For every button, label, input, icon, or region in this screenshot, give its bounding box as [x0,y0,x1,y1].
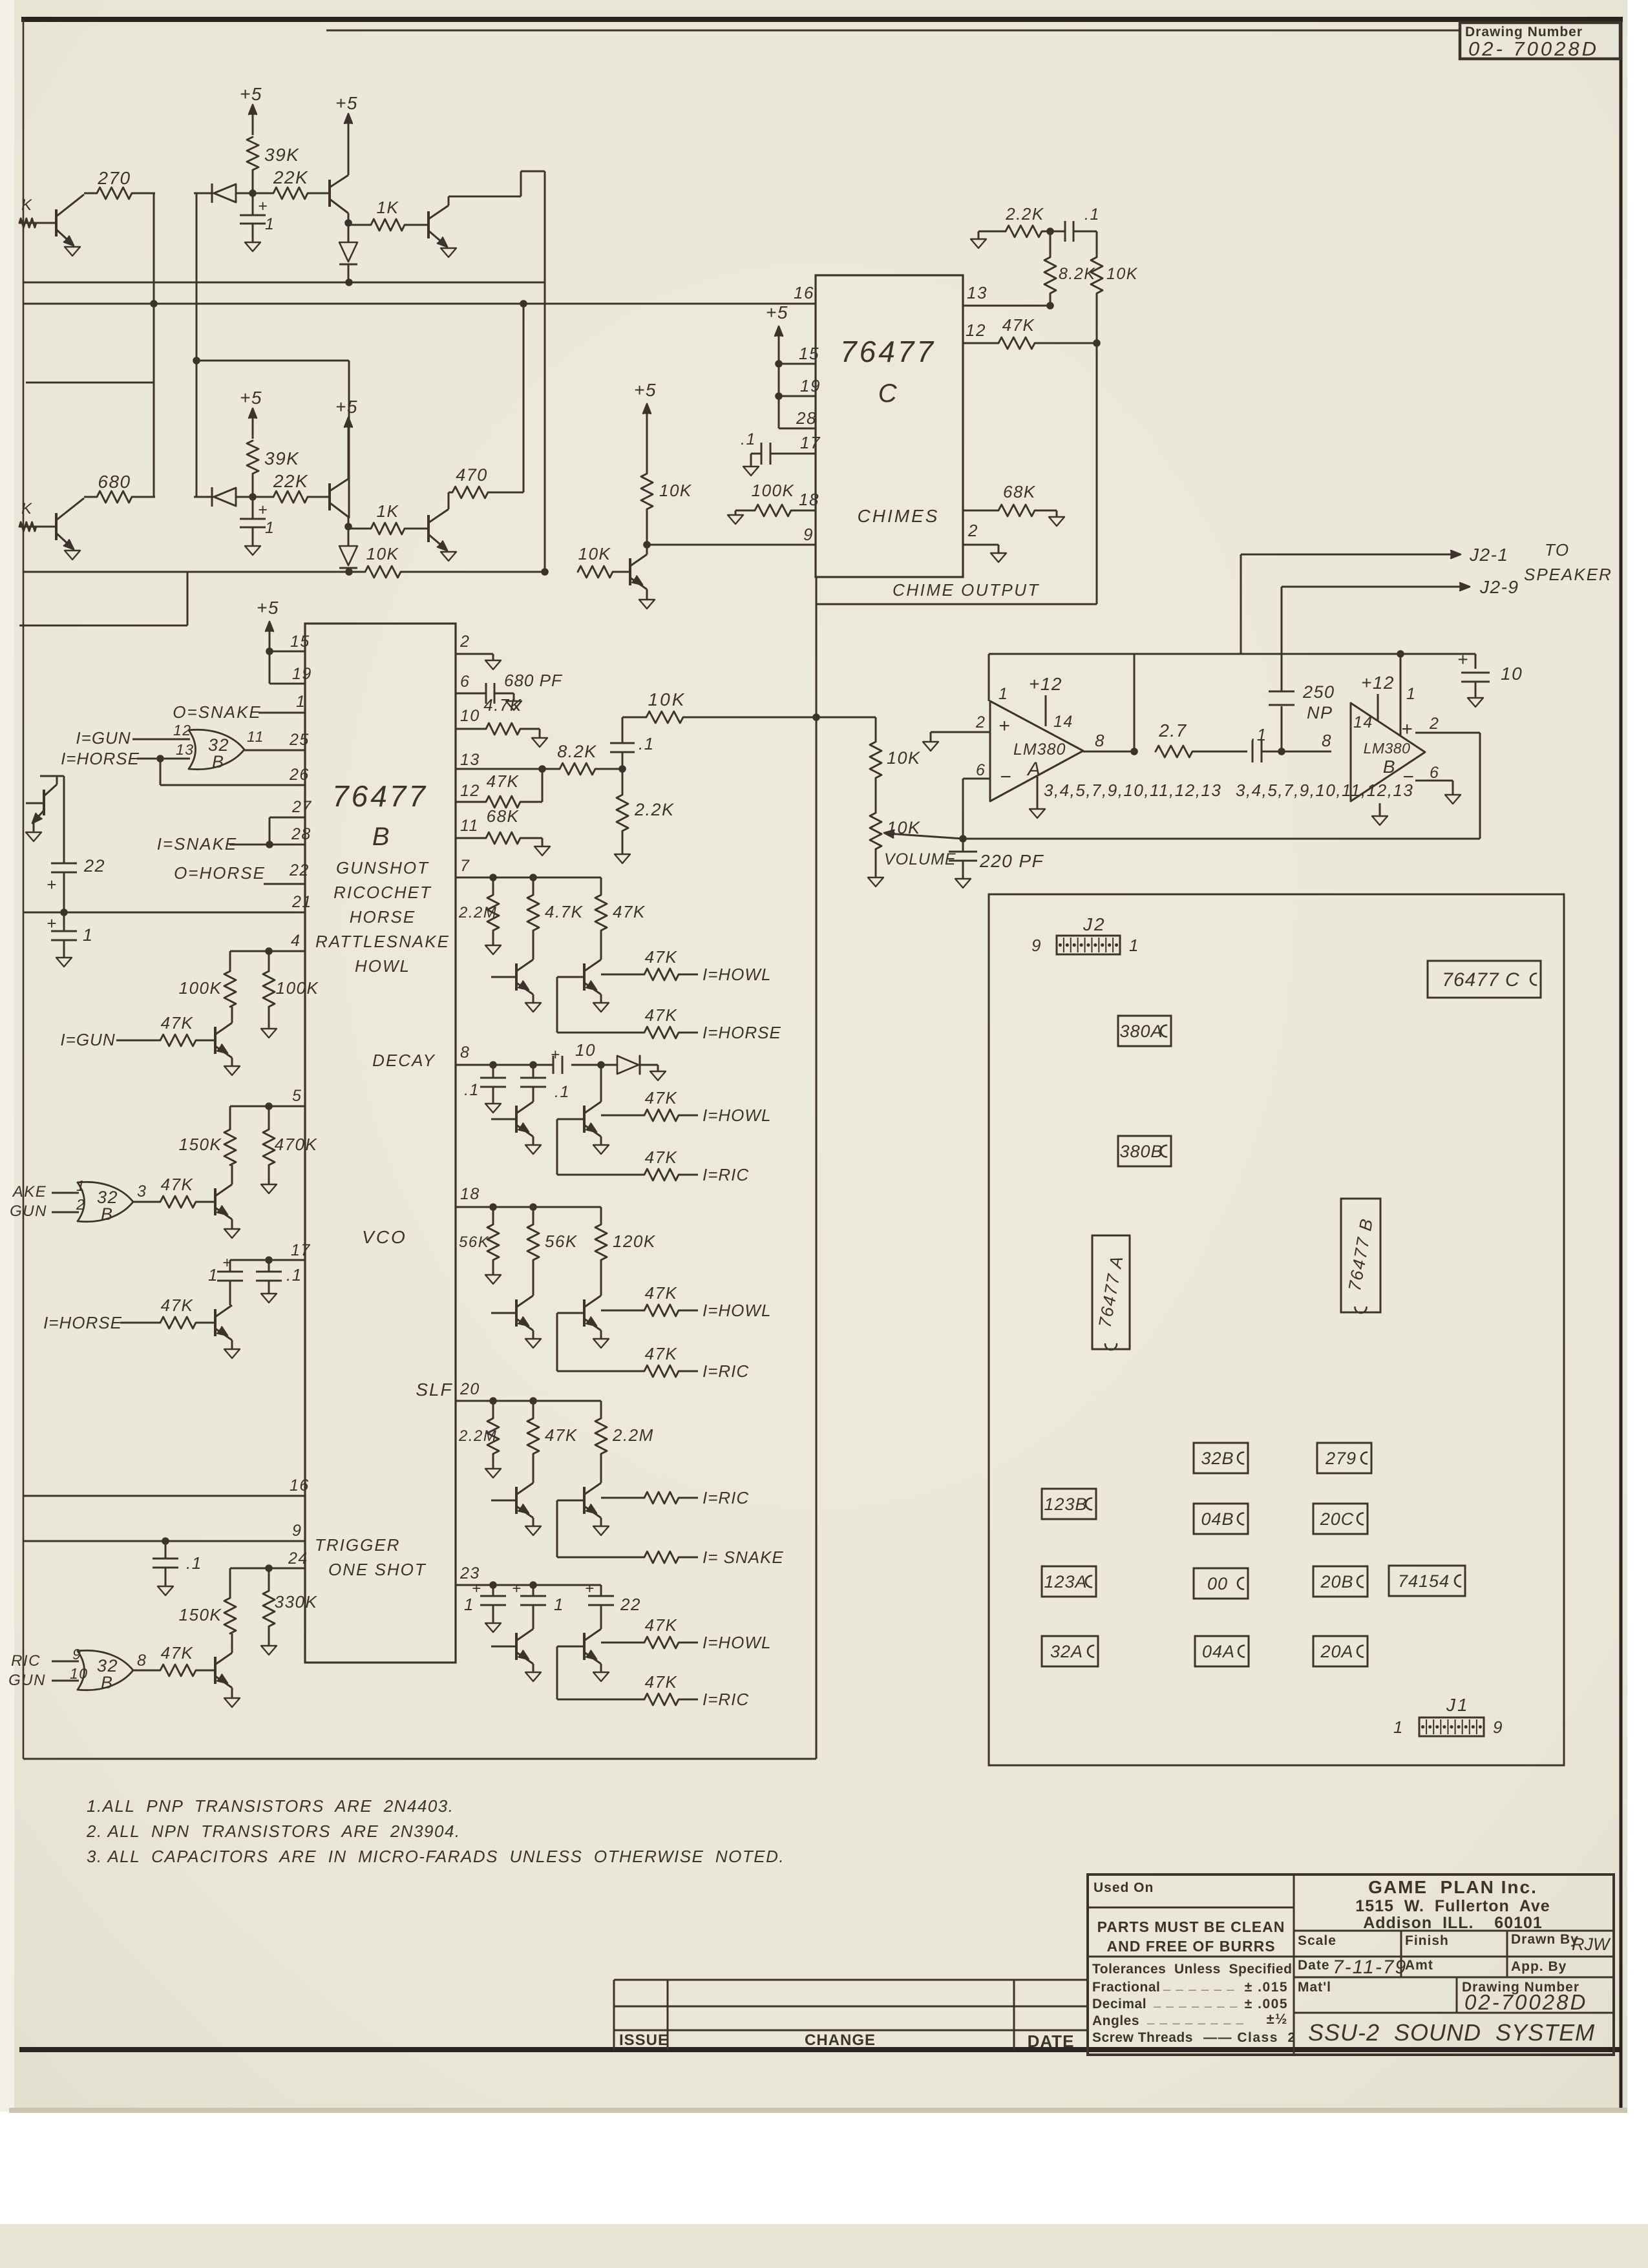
svg-text:2.2M: 2.2M [458,1427,497,1445]
svg-text:B: B [101,1673,114,1692]
svg-text:Decimal: Decimal [1092,1997,1146,2011]
svg-text:15: 15 [290,633,310,651]
svg-text:2: 2 [460,633,470,651]
svg-text:I=RIC: I=RIC [703,1690,749,1709]
svg-text:6: 6 [1430,764,1439,782]
svg-text:28: 28 [796,408,817,428]
svg-text:+12: +12 [1029,674,1062,694]
svg-text:J2-1: J2-1 [1469,545,1508,565]
svg-text:10: 10 [460,707,480,725]
svg-text:8: 8 [1322,731,1332,750]
svg-text:6: 6 [976,761,986,779]
svg-text:10: 10 [70,1665,89,1682]
svg-text:123A: 123A [1044,1572,1087,1591]
svg-text:3,4,5,7,9,10,11,12,13: 3,4,5,7,9,10,11,12,13 [1236,781,1413,800]
svg-text:.1: .1 [286,1265,302,1285]
svg-text:2. ALL NPN TRANSISTORS ARE: 2. ALL NPN TRANSISTORS ARE 2N3904. [86,1822,461,1841]
svg-text:2.2K: 2.2K [1005,204,1044,224]
svg-text:.1: .1 [464,1081,480,1099]
svg-text:GUN: GUN [10,1202,47,1220]
svg-text:1: 1 [998,685,1008,703]
svg-text:+5: +5 [240,388,262,408]
svg-text:04B: 04B [1201,1509,1234,1529]
svg-text:± .005: ± .005 [1245,1997,1288,2011]
svg-text:12: 12 [460,782,480,800]
svg-text:I=HORSE: I=HORSE [61,749,140,768]
svg-text:8.2K: 8.2K [1059,265,1095,283]
svg-text:B: B [1383,757,1396,777]
svg-text:+: + [1401,719,1413,740]
svg-text:8: 8 [1095,731,1105,750]
svg-text:HORSE: HORSE [350,907,416,927]
svg-text:CHIMES: CHIMES [858,506,940,526]
svg-text:10K: 10K [578,544,611,563]
svg-text:47K: 47K [645,1088,678,1108]
svg-text:20: 20 [460,1380,480,1398]
svg-text:100K: 100K [752,481,795,500]
svg-text:_ _ _ _ _ _ _ _: _ _ _ _ _ _ _ _ [1146,2011,1244,2026]
svg-text:220 PF: 220 PF [979,851,1044,871]
svg-text:470: 470 [456,465,488,485]
svg-text:DECAY: DECAY [372,1051,436,1070]
svg-text:+5: +5 [766,302,788,322]
svg-text:PARTS MUST BE CLEAN: PARTS MUST BE CLEAN [1097,1918,1285,1935]
svg-text:56K: 56K [459,1234,489,1251]
svg-text:14: 14 [1353,713,1373,731]
svg-text:2.7: 2.7 [1158,720,1187,740]
svg-text:32B: 32B [1201,1449,1234,1468]
svg-text:± .015: ± .015 [1245,1980,1288,1995]
svg-text:App. By: App. By [1511,1959,1567,1974]
svg-text:−: − [1000,766,1012,788]
svg-text:B: B [212,752,225,772]
svg-text:150K: 150K [179,1135,222,1154]
svg-text:_ _ _ _ _ _: _ _ _ _ _ _ [1163,1978,1235,1992]
svg-text:AND FREE OF BURRS: AND FREE OF BURRS [1106,1938,1275,1955]
svg-text:25: 25 [289,731,310,749]
svg-text:.1: .1 [1084,205,1100,224]
svg-text:3,4,5,7,9,10,11,12,13: 3,4,5,7,9,10,11,12,13 [1044,781,1221,800]
svg-text:02-70028D: 02-70028D [1464,1990,1587,2014]
svg-text:1: 1 [296,693,306,711]
svg-text:K: K [21,196,33,214]
svg-text:470K: 470K [275,1135,318,1154]
svg-text:47K: 47K [545,1425,578,1445]
svg-text:10: 10 [1501,664,1523,684]
svg-text:279: 279 [1325,1449,1357,1468]
svg-text:—— Class 2: —— Class 2 [1203,2030,1296,2045]
svg-text:GUN: GUN [8,1672,46,1689]
svg-text:1: 1 [76,1177,85,1194]
svg-text:120K: 120K [613,1232,656,1251]
svg-text:+: + [551,1046,561,1064]
svg-text:SPEAKER: SPEAKER [1524,565,1612,584]
svg-text:I=GUN: I=GUN [60,1030,115,1049]
svg-text:Used On: Used On [1093,1880,1154,1895]
svg-text:AKE: AKE [12,1183,47,1201]
svg-text:22K: 22K [273,167,308,187]
svg-text:12: 12 [173,722,192,739]
svg-text:1: 1 [464,1595,474,1614]
svg-text:.1: .1 [186,1553,202,1573]
svg-text:22K: 22K [273,471,308,491]
svg-text:76477: 76477 [840,335,936,368]
svg-text:6: 6 [460,673,470,691]
svg-text:47K: 47K [645,1005,678,1025]
svg-text:26: 26 [289,766,310,784]
svg-text:J2: J2 [1083,914,1106,934]
svg-text:1515 W. Fullerton Ave: 1515 W. Fullerton Ave [1355,1897,1550,1915]
svg-text:2.2M: 2.2M [612,1425,654,1445]
svg-text:RICOCHET: RICOCHET [333,883,432,902]
svg-text:O=SNAKE: O=SNAKE [173,702,262,722]
svg-text:00: 00 [1207,1574,1228,1593]
svg-text:1: 1 [208,1265,218,1285]
svg-text:DATE: DATE [1028,2032,1075,2051]
svg-text:+: + [585,1580,595,1597]
svg-text:1: 1 [265,519,275,537]
svg-text:+5: +5 [257,598,279,618]
svg-text:C: C [878,379,898,408]
svg-text:LM380: LM380 [1013,740,1066,759]
svg-text:13: 13 [967,283,988,302]
svg-text:270: 270 [97,168,131,188]
svg-text:J2-9: J2-9 [1479,577,1519,597]
svg-text:24: 24 [288,1549,308,1568]
svg-text:LM380: LM380 [1364,740,1411,757]
svg-text:10K: 10K [887,748,921,768]
svg-text:+: + [512,1580,522,1597]
svg-text:17: 17 [800,433,821,452]
svg-text:Scale: Scale [1298,1933,1336,1948]
svg-text:76477: 76477 [332,779,428,813]
svg-text:+5: +5 [335,93,358,113]
svg-text:20A: 20A [1320,1642,1353,1661]
svg-text:+: + [258,501,268,519]
svg-text:+5: +5 [634,380,657,400]
svg-text:13: 13 [176,741,195,758]
svg-text:RJW: RJW [1572,1935,1611,1954]
svg-text:K: K [21,500,33,518]
svg-text:68K: 68K [1003,482,1036,501]
svg-text:100K: 100K [276,978,319,998]
svg-text:I=RIC: I=RIC [703,1165,749,1184]
svg-text:3: 3 [137,1182,147,1201]
svg-text:2: 2 [967,521,978,540]
svg-text:9: 9 [803,525,814,544]
svg-text:7-11-79: 7-11-79 [1333,1957,1407,1978]
svg-text:1: 1 [83,925,94,945]
svg-text:GAME PLAN Inc.: GAME PLAN Inc. [1368,1877,1537,1897]
svg-text:1K: 1K [377,501,399,521]
svg-text:1: 1 [1393,1717,1404,1737]
svg-text:76477 C: 76477 C [1442,969,1519,991]
svg-text:NP: NP [1307,703,1333,722]
svg-text:3. ALL CAPACITORS ARE IN M: 3. ALL CAPACITORS ARE IN MICRO-FARADS UN… [87,1847,785,1866]
svg-text:47K: 47K [645,1615,678,1635]
svg-text:32A: 32A [1050,1642,1083,1661]
svg-text:13: 13 [460,751,480,769]
svg-text:47K: 47K [161,1013,194,1033]
svg-text:100K: 100K [179,978,222,998]
svg-text:250: 250 [1302,682,1335,702]
svg-text:ISSUE: ISSUE [619,2032,669,2049]
svg-text:2: 2 [1429,715,1439,733]
svg-text:9: 9 [292,1522,302,1540]
svg-text:04A: 04A [1202,1642,1235,1661]
svg-text:56K: 56K [545,1232,578,1251]
svg-text:74154: 74154 [1398,1571,1450,1591]
svg-text:02- 70028D: 02- 70028D [1468,37,1599,60]
svg-text:20B: 20B [1320,1572,1353,1591]
svg-text:47K: 47K [645,947,678,967]
svg-text:10K: 10K [659,481,692,500]
svg-text:18: 18 [460,1185,480,1203]
svg-text:19: 19 [800,376,821,395]
svg-text:VCO: VCO [362,1227,407,1247]
svg-text:+: + [258,197,268,215]
svg-text:I=HOWL: I=HOWL [703,965,771,984]
svg-text:17: 17 [291,1241,311,1259]
svg-text:22: 22 [289,861,310,879]
svg-text:Screw Threads: Screw Threads [1092,2030,1193,2045]
svg-text:10: 10 [575,1040,596,1060]
svg-text:11: 11 [460,817,479,835]
svg-text:+12: +12 [1361,673,1395,693]
svg-text:Tolerances Unless Specified: Tolerances Unless Specified [1092,1962,1292,1977]
svg-text:10K: 10K [648,689,686,709]
svg-text:19: 19 [292,665,312,683]
svg-text:Mat'l: Mat'l [1298,1980,1331,1995]
svg-text:O=HORSE: O=HORSE [174,863,266,883]
svg-text:RIC: RIC [11,1652,41,1670]
svg-text:HOWL: HOWL [355,956,410,976]
svg-text:J1: J1 [1446,1695,1470,1715]
svg-text:Date: Date [1298,1958,1330,1973]
svg-text:380A: 380A [1119,1022,1163,1041]
svg-text:12: 12 [966,320,986,340]
svg-text:1K: 1K [377,198,399,217]
svg-text:.1: .1 [555,1083,570,1101]
svg-text:2.2K: 2.2K [634,800,675,819]
svg-text:16: 16 [290,1476,310,1495]
svg-text:680: 680 [98,472,131,492]
svg-text:2: 2 [76,1196,85,1213]
svg-text:I=RIC: I=RIC [703,1361,749,1381]
svg-text:TO: TO [1545,540,1570,560]
svg-text:2: 2 [975,713,986,731]
svg-text:RATTLESNAKE: RATTLESNAKE [315,932,450,951]
svg-text:CHANGE: CHANGE [805,2032,876,2049]
svg-text:18: 18 [799,490,819,509]
svg-text:I=HORSE: I=HORSE [43,1313,122,1332]
svg-text:14: 14 [1053,713,1073,731]
svg-text:+: + [47,875,58,894]
svg-text:4.7K: 4.7K [545,902,584,921]
svg-text:1.ALL PNP TRANSISTORS ARE: 1.ALL PNP TRANSISTORS ARE 2N4403. [87,1796,454,1816]
svg-text:2.2M: 2.2M [458,904,497,921]
svg-text:39K: 39K [264,448,299,468]
svg-text:GUNSHOT: GUNSHOT [336,858,429,877]
svg-text:I=RIC: I=RIC [703,1488,749,1507]
svg-text:A: A [1026,759,1042,780]
svg-text:CHIME OUTPUT: CHIME OUTPUT [893,580,1040,600]
svg-text:9: 9 [1031,936,1042,955]
svg-text:I=GUN: I=GUN [76,728,131,748]
svg-text:I=HOWL: I=HOWL [703,1106,771,1125]
svg-text:68K: 68K [487,806,520,826]
svg-text:Finish: Finish [1405,1933,1449,1948]
svg-text:Amt: Amt [1405,1958,1433,1973]
svg-text:680 PF: 680 PF [504,671,563,690]
svg-text:22: 22 [620,1595,641,1614]
svg-text:VOLUME: VOLUME [884,850,956,868]
svg-text:.1: .1 [639,734,655,753]
svg-text:47K: 47K [613,902,646,921]
svg-text:SLF: SLF [416,1380,452,1400]
svg-text:47K: 47K [645,1148,678,1167]
svg-text:Addison ILL. 60101: Addison ILL. 60101 [1363,1914,1543,1932]
svg-text:380B: 380B [1119,1142,1163,1161]
svg-text:4: 4 [291,932,301,950]
svg-text:I=HOWL: I=HOWL [703,1633,771,1652]
svg-text:+: + [1457,649,1469,669]
svg-text:10K: 10K [1106,265,1138,283]
svg-text:123B: 123B [1044,1495,1087,1514]
svg-text:47K: 47K [1002,315,1035,335]
svg-text:47K: 47K [487,772,520,791]
svg-text:11: 11 [247,728,264,745]
svg-text:+5: +5 [240,84,262,104]
svg-text:I=HORSE: I=HORSE [703,1023,781,1042]
svg-text:SSU-2 SOUND SYSTEM: SSU-2 SOUND SYSTEM [1308,2019,1595,2046]
svg-text:21: 21 [291,893,312,911]
svg-text:47K: 47K [645,1344,678,1363]
svg-text:I=SNAKE: I=SNAKE [157,834,238,854]
svg-text:1: 1 [1129,936,1139,955]
svg-text:9: 9 [1493,1717,1503,1737]
svg-text:.1: .1 [741,430,756,448]
svg-text:I= SNAKE: I= SNAKE [703,1548,784,1567]
svg-text:27: 27 [291,798,312,816]
svg-text:28: 28 [291,825,312,843]
svg-text:Drawn By: Drawn By [1511,1932,1579,1947]
svg-text:330K: 330K [275,1592,318,1612]
svg-text:22: 22 [83,856,105,876]
svg-text:150K: 150K [179,1605,222,1624]
svg-text:_ _ _ _ _ _ _: _ _ _ _ _ _ _ [1153,1995,1238,2009]
svg-text:47K: 47K [161,1296,194,1315]
svg-text:16: 16 [794,283,814,302]
svg-text:8: 8 [460,1044,470,1062]
svg-text:±½: ±½ [1267,2011,1288,2027]
svg-text:5: 5 [292,1087,302,1105]
svg-text:B: B [101,1204,114,1224]
svg-text:+: + [222,1254,233,1272]
svg-text:4.7K: 4.7K [483,695,522,715]
svg-text:.1: .1 [1251,725,1267,744]
svg-text:15: 15 [799,344,819,363]
svg-text:1: 1 [265,215,275,233]
svg-text:TRIGGER: TRIGGER [315,1535,400,1555]
svg-text:Angles: Angles [1092,2013,1139,2028]
svg-text:1: 1 [1406,685,1416,703]
svg-text:39K: 39K [264,145,299,165]
svg-text:47K: 47K [161,1175,194,1194]
svg-text:B: B [372,823,390,851]
svg-text:47K: 47K [645,1283,678,1303]
svg-text:10K: 10K [366,544,399,563]
svg-text:47K: 47K [161,1643,194,1663]
svg-text:Fractional: Fractional [1092,1980,1160,1995]
svg-text:9: 9 [72,1646,81,1663]
svg-text:8.2K: 8.2K [557,742,597,761]
svg-text:ONE SHOT: ONE SHOT [328,1560,427,1579]
svg-text:8: 8 [137,1652,147,1670]
svg-text:+5: +5 [335,397,358,417]
svg-text:7: 7 [460,857,470,875]
svg-text:47K: 47K [645,1672,678,1692]
svg-text:+: + [998,715,1011,737]
svg-text:I=HOWL: I=HOWL [703,1301,771,1320]
svg-text:1: 1 [554,1595,564,1614]
svg-text:20C: 20C [1320,1509,1355,1529]
